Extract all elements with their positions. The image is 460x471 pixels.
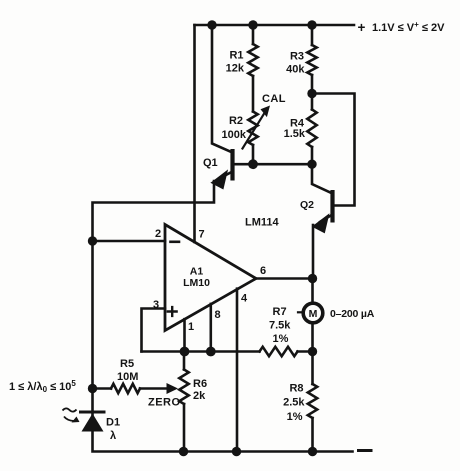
svg-text:CAL: CAL: [262, 93, 286, 105]
svg-text:2: 2: [155, 228, 161, 240]
svg-text:Q2: Q2: [300, 199, 314, 211]
svg-text:LM10: LM10: [183, 277, 210, 289]
svg-text:1 ≤ λ/λ0 ≤ 105: 1 ≤ λ/λ0 ≤ 105: [9, 379, 76, 394]
svg-text:4: 4: [241, 293, 248, 305]
svg-text:7.5k: 7.5k: [269, 320, 291, 332]
svg-text:M: M: [309, 308, 318, 320]
svg-text:R3: R3: [290, 51, 304, 63]
svg-text:1.1V ≤ V+ ≤ 2V: 1.1V ≤ V+ ≤ 2V: [372, 20, 445, 34]
svg-text:1%: 1%: [287, 411, 303, 423]
svg-text:Q1: Q1: [203, 157, 218, 169]
svg-text:8: 8: [215, 309, 221, 321]
svg-text:A1: A1: [190, 266, 204, 278]
svg-text:7: 7: [199, 229, 205, 241]
svg-text:ZERO: ZERO: [148, 397, 181, 409]
svg-text:R8: R8: [289, 383, 303, 395]
svg-text:λ: λ: [110, 430, 116, 442]
svg-text:1: 1: [188, 321, 194, 333]
svg-text:LM114: LM114: [245, 217, 280, 229]
svg-text:R7: R7: [273, 306, 287, 318]
svg-text:R6: R6: [193, 378, 207, 390]
svg-text:2.5k: 2.5k: [283, 397, 305, 409]
svg-text:3: 3: [153, 299, 159, 311]
svg-text:D1: D1: [106, 417, 120, 429]
svg-text:12k: 12k: [226, 63, 245, 75]
svg-text:+: +: [358, 20, 366, 35]
svg-text:6: 6: [260, 265, 266, 277]
svg-text:2k: 2k: [193, 390, 206, 402]
svg-text:R2: R2: [229, 115, 243, 127]
svg-text:40k: 40k: [286, 64, 305, 76]
svg-text:1.5k: 1.5k: [284, 128, 306, 140]
svg-text:R5: R5: [120, 358, 134, 370]
svg-text:R1: R1: [229, 50, 243, 62]
svg-text:100k: 100k: [222, 129, 247, 141]
svg-text:1%: 1%: [273, 333, 289, 345]
svg-text:0–200 µA: 0–200 µA: [330, 308, 375, 320]
svg-text:10M: 10M: [117, 371, 138, 383]
